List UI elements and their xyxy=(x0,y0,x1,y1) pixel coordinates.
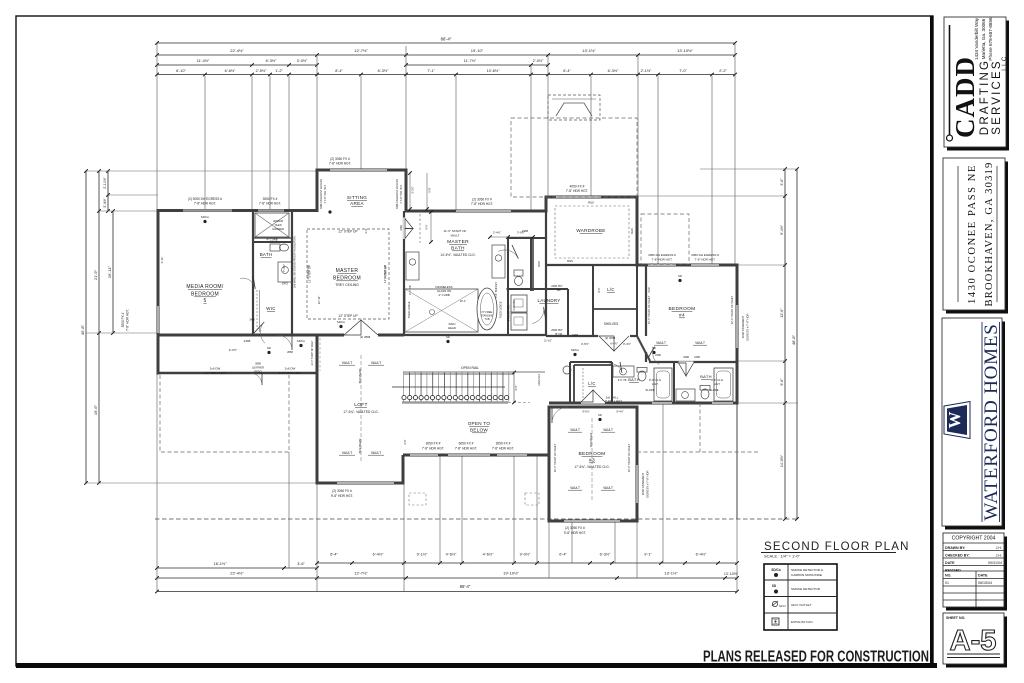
svg-text:2668 PKT: 2668 PKT xyxy=(551,328,563,332)
svg-text:4'-6½": 4'-6½" xyxy=(446,553,457,557)
svg-text:SHELVES: SHELVES xyxy=(604,322,618,326)
svg-text:EGRESS # 7'-8" HDR: EGRESS # 7'-8" HDR xyxy=(646,470,650,497)
interior wall: closet R&S xyxy=(532,238,534,291)
svg-text:1430 OCONEE PASS NE: 1430 OCONEE PASS NE xyxy=(967,164,978,304)
svg-text:7'-8" HDR HGT.: 7'-8" HDR HGT. xyxy=(492,447,514,451)
svg-text:3'-6": 3'-6" xyxy=(297,562,305,566)
svg-text:(2) 3050 FX #: (2) 3050 FX # xyxy=(332,489,352,493)
svg-text:CAB ABV.: CAB ABV. xyxy=(513,299,516,310)
bottom dimension row C (86'-4") xyxy=(157,591,737,593)
fixture: ped sink xyxy=(563,366,571,374)
svg-text:21'-9": 21'-9" xyxy=(93,269,98,280)
dashed bits below window wall xyxy=(409,493,426,505)
exterior wall: loft south xyxy=(316,482,405,485)
sidebar block: copyright table xyxy=(946,537,1007,611)
roof edge line right of bedroom3 xyxy=(736,403,738,519)
staircase treads xyxy=(403,373,405,403)
svg-text:4050 FX #: 4050 FX # xyxy=(570,185,585,189)
svg-text:RGB: RGB xyxy=(648,287,651,293)
svg-text:SD: SD xyxy=(598,413,602,417)
svg-text:3050 FX #: 3050 FX # xyxy=(121,312,125,327)
svg-text:10'-0" START OF VAULT: 10'-0" START OF VAULT xyxy=(627,443,631,472)
interior wall: master east xyxy=(403,211,405,335)
svg-text:SLOPE: SLOPE xyxy=(645,388,654,392)
svg-text:19'-10": 19'-10" xyxy=(471,48,484,53)
svg-text:8'-4": 8'-4" xyxy=(335,69,343,73)
svg-text:3'-4½": 3'-4½" xyxy=(623,342,631,346)
fixture: bath1 toilet xyxy=(638,371,646,381)
svg-text:REVISED: REVISED xyxy=(945,569,961,573)
svg-text:9'-8": 9'-8" xyxy=(428,187,432,192)
svg-text:7'-8" HDR HGT.: 7'-8" HDR HGT. xyxy=(695,258,716,262)
exterior wall: south wall y=335 xyxy=(157,334,405,337)
door: L/C lower doors xyxy=(581,400,605,403)
fixture: bath vanity xyxy=(278,262,292,282)
svg-text:6'-4": 6'-4" xyxy=(559,553,567,557)
left extension lines xyxy=(86,170,317,172)
svg-text:AREA: AREA xyxy=(350,201,364,206)
fixture: bath toilet xyxy=(270,244,280,251)
svg-text:VAULT: VAULT xyxy=(450,234,459,238)
svg-text:SMOKE DETECTOR &: SMOKE DETECTOR & xyxy=(791,568,824,572)
svg-text:9' STEP UP: 9' STEP UP xyxy=(384,265,388,279)
svg-text:16'-1½": 16'-1½" xyxy=(214,562,227,566)
svg-text:VAULT: VAULT xyxy=(342,361,352,365)
svg-text:R&S: R&S xyxy=(588,201,594,205)
svg-text:EGRESS # 7'-8" HDR: EGRESS # 7'-8" HDR xyxy=(746,313,750,340)
svg-text:6'-3½": 6'-3½" xyxy=(608,69,619,73)
interior wall: bath strip L/C lower xyxy=(573,365,575,403)
svg-text:BOX BEAM: BOX BEAM xyxy=(358,438,362,453)
svg-text:(2) 3068: (2) 3068 xyxy=(605,336,616,340)
svg-text:SHEET NO.: SHEET NO. xyxy=(946,616,965,620)
svg-text:9'-0" WALL HGT.: 9'-0" WALL HGT. xyxy=(204,371,227,375)
svg-text:EXHAUST FAN: EXHAUST FAN xyxy=(791,620,812,624)
svg-text:1434 Vanderbilt Way: 1434 Vanderbilt Way xyxy=(974,17,979,60)
svg-text:TUB: TUB xyxy=(485,318,490,321)
svg-text:VAULT: VAULT xyxy=(570,428,580,432)
svg-text:CHECKED BY:: CHECKED BY: xyxy=(945,554,970,558)
svg-text:11'-6" START OF: 11'-6" START OF xyxy=(444,229,467,233)
exterior wall: wardrobe right xyxy=(636,196,639,267)
interior wall: masterbath south / hall north y=335 xyxy=(404,334,546,336)
bottom dimension row A right xyxy=(317,562,737,564)
dashed roof outline center xyxy=(511,118,637,197)
svg-text:TREY CEILING: TREY CEILING xyxy=(335,283,359,287)
legend box xyxy=(764,564,837,630)
svg-text:7'-8" HDR HGT.: 7'-8" HDR HGT. xyxy=(652,258,673,262)
svg-text:2'-2": 2'-2" xyxy=(719,69,727,73)
svg-text:SD/Co: SD/Co xyxy=(337,320,346,324)
exterior wall: wardrobe jog/top xyxy=(545,196,548,213)
interior wall: wardrobe south / bedroom4 row y=265 xyxy=(546,264,637,266)
closet depth dim xyxy=(430,212,432,242)
svg-text:48'-8": 48'-8" xyxy=(791,334,796,345)
svg-text:2x6 DW: 2x6 DW xyxy=(210,367,221,371)
svg-text:9'-1": 9'-1" xyxy=(644,553,652,557)
dashed overhang line bottom xyxy=(155,518,798,520)
svg-text:3'-0½": 3'-0½" xyxy=(297,59,308,63)
fixture: bath2 tub xyxy=(714,368,733,401)
dashed chimney top xyxy=(548,95,600,120)
fixture: bath1 tub xyxy=(654,368,672,401)
waterford W logo xyxy=(944,402,970,439)
svg-text:(2) 3050 DH EGRESS #: (2) 3050 DH EGRESS # xyxy=(188,197,222,201)
svg-text:2868: 2868 xyxy=(287,350,293,354)
svg-text:VAULT: VAULT xyxy=(603,486,613,490)
svg-text:2468: 2468 xyxy=(694,355,700,359)
svg-text:DRAWN BY:: DRAWN BY: xyxy=(945,546,966,550)
svg-text:4'-6½": 4'-6½" xyxy=(483,553,494,557)
door: patio door on wall y=373 xyxy=(261,373,263,385)
svg-text:9' STEP UP: 9' STEP UP xyxy=(306,265,310,279)
svg-text:3468: 3468 xyxy=(572,333,579,337)
svg-text:SD/Co: SD/Co xyxy=(571,348,580,352)
exterior wall: bedroom4 right xyxy=(736,264,739,405)
svg-text:09/31/04: 09/31/04 xyxy=(988,561,1002,565)
svg-text:TILED LEDGE: TILED LEDGE xyxy=(407,301,411,318)
dashed wardrobe rect xyxy=(555,206,629,258)
dimension chain row 3 xyxy=(157,64,317,66)
svg-text:6'-3½": 6'-3½" xyxy=(600,553,611,557)
bottom dimension row B xyxy=(157,577,737,579)
door: laundry xyxy=(544,307,546,321)
interior wall: hall y=336 L/C block xyxy=(546,335,598,337)
exterior wall: media room left xyxy=(157,209,160,375)
fixture: bath1 vanity xyxy=(613,366,634,377)
svg-text:3050 FX #: 3050 FX # xyxy=(426,442,441,446)
door: bath entry xyxy=(253,276,255,289)
svg-text:VAULT: VAULT xyxy=(570,486,580,490)
svg-text:LEATHER: LEATHER xyxy=(252,366,264,370)
svg-text:VAULT: VAULT xyxy=(603,428,613,432)
svg-text:BATH: BATH xyxy=(628,377,640,382)
svg-text:3'-6½": 3'-6½" xyxy=(581,342,589,346)
window: media top xyxy=(183,209,232,212)
window: wardrobe top xyxy=(556,196,601,199)
dashed lc shelf xyxy=(582,368,584,400)
exterior wall: bath strip bottom xyxy=(549,402,739,405)
svg-text:WARDROBE: WARDROBE xyxy=(576,228,605,233)
svg-text:GFCI: GFCI xyxy=(779,604,786,608)
interior wall: bath strip top left piece xyxy=(570,361,612,363)
svg-text:2x6 WALL W/ SOUND PROOF INSULA: 2x6 WALL W/ SOUND PROOF INSULATION xyxy=(293,236,297,288)
interior wall: L/C upper xyxy=(592,265,594,336)
svg-text:SD: SD xyxy=(772,584,777,588)
fixture: master bath right vanity xyxy=(492,245,505,278)
door: WC xyxy=(512,245,518,259)
svg-text:SHOWER: SHOWER xyxy=(272,227,284,231)
svg-text:6'-3½": 6'-3½" xyxy=(266,59,277,63)
stair bottom gray band xyxy=(402,401,508,403)
svg-text:3050 DH EGRESS #: 3050 DH EGRESS # xyxy=(691,253,719,257)
svg-text:13'-10½": 13'-10½" xyxy=(677,48,693,53)
stair railing balusters xyxy=(402,396,406,400)
svg-text:7'-8" HDR HGT.: 7'-8" HDR HGT. xyxy=(329,162,351,166)
svg-text:HEAD: HEAD xyxy=(448,326,456,330)
svg-text:7'-0": 7'-0" xyxy=(679,69,687,73)
svg-text:6'-10": 6'-10" xyxy=(176,69,186,73)
svg-text:22'-4½": 22'-4½" xyxy=(230,571,244,576)
svg-text:OPEN TO: OPEN TO xyxy=(468,421,491,426)
svg-text:PATIO: PATIO xyxy=(254,370,261,374)
svg-text:9'-3½": 9'-3½" xyxy=(229,348,237,352)
interior wall: bath/wic divider xyxy=(253,241,292,243)
svg-text:6'-4": 6'-4" xyxy=(330,553,338,557)
svg-text:PLANS RELEASED FOR CONSTRUCTIO: PLANS RELEASED FOR CONSTRUCTION xyxy=(703,649,929,666)
dimension chain row 4 xyxy=(157,74,735,76)
svg-text:9'-0½": 9'-0½" xyxy=(520,553,531,557)
exterior wall: media room top xyxy=(158,209,317,212)
svg-text:BELOW: BELOW xyxy=(470,428,488,433)
svg-text:Marietta, Ga. 30066: Marietta, Ga. 30066 xyxy=(981,18,986,59)
svg-text:SECOND FLOOR PLAN: SECOND FLOOR PLAN xyxy=(764,541,910,553)
svg-text:WIC: WIC xyxy=(266,306,275,311)
svg-text:6'-4½": 6'-4½" xyxy=(373,553,384,557)
svg-text:VAULT: VAULT xyxy=(342,451,352,455)
svg-text:9'-4½": 9'-4½" xyxy=(780,224,784,235)
svg-text:4'-6": 4'-6" xyxy=(514,385,518,391)
window: bedroom3 south xyxy=(564,520,620,523)
svg-text:10'-0" START OF VAULT: 10'-0" START OF VAULT xyxy=(311,340,314,366)
interior wall: media/bath divider xyxy=(252,211,254,336)
interior wall: bath1/bath2 divider xyxy=(673,362,675,403)
svg-text:13'-1½": 13'-1½" xyxy=(582,48,596,53)
right dimension column xyxy=(784,169,786,519)
window: bath top xyxy=(258,209,284,212)
window: media left wall xyxy=(157,306,160,333)
svg-text:4'-6": 4'-6" xyxy=(403,439,407,444)
svg-text:11'-7½": 11'-7½" xyxy=(464,59,477,63)
fixture: master shower tiled xyxy=(405,289,478,332)
svg-text:01: 01 xyxy=(945,581,949,585)
svg-text:J.H.: J.H. xyxy=(996,546,1002,550)
svg-text:7'-8" HDR HGT.: 7'-8" HDR HGT. xyxy=(566,189,588,193)
exterior wall: loft east below rail xyxy=(402,455,405,485)
svg-text:2'-1½": 2'-1½" xyxy=(641,69,652,73)
exterior wall: master bath top xyxy=(405,210,548,213)
window: master bath top xyxy=(456,210,511,213)
svg-text:14'-0½": 14'-0½" xyxy=(780,454,784,467)
svg-text:CARBON MONOXIDE: CARBON MONOXIDE xyxy=(791,573,822,577)
sidebar block: WATERFORD HOMES xyxy=(945,322,1005,530)
svg-text:13'-6": 13'-6" xyxy=(780,308,784,318)
svg-text:6'-4½": 6'-4½" xyxy=(696,553,707,557)
svg-text:12'-7½": 12'-7½" xyxy=(354,48,368,53)
svg-text:BATH: BATH xyxy=(260,252,273,257)
svg-text:SD: SD xyxy=(678,274,682,278)
svg-text:6'-3½": 6'-3½" xyxy=(378,69,389,73)
dashed tray ceiling master bedroom xyxy=(307,229,389,319)
svg-text:22'-4½": 22'-4½" xyxy=(230,48,244,53)
svg-text:3068 CASEMENT EGRESS: 3068 CASEMENT EGRESS xyxy=(396,179,399,209)
svg-text:12'-0" START OF VAULT: 12'-0" START OF VAULT xyxy=(647,295,651,324)
svg-text:SLOPE: SLOPE xyxy=(709,388,718,392)
window: bedroom3 east xyxy=(636,465,639,503)
svg-text:BOX BEAM: BOX BEAM xyxy=(358,368,362,383)
svg-text:12" STEP UP: 12" STEP UP xyxy=(338,230,357,234)
svg-text:45'-8": 45'-8" xyxy=(80,324,85,335)
door: bedroom3 entry xyxy=(551,407,553,423)
exterior wall: open-below window wall xyxy=(403,454,549,457)
svg-text:14'-4½"- VAULTED CLG.: 14'-4½"- VAULTED CLG. xyxy=(440,253,475,257)
window: bedroom4 east xyxy=(736,305,739,348)
interior wall: WC walls xyxy=(507,238,509,291)
svg-text:3068 CASEMENT EGRESS: 3068 CASEMENT EGRESS xyxy=(320,179,323,209)
svg-text:LLC: LLC xyxy=(1002,55,1008,71)
svg-text:# 7'-8" HDR HGT.: # 7'-8" HDR HGT. xyxy=(400,184,403,203)
svg-text:NO.: NO. xyxy=(945,574,951,578)
svg-text:R&S: R&S xyxy=(567,259,573,263)
svg-text:3068 CASEMENT: 3068 CASEMENT xyxy=(741,315,745,338)
svg-text:7'-1": 7'-1" xyxy=(427,69,435,73)
fixture: laundry units xyxy=(511,295,527,312)
svg-text:2x6 DW: 2x6 DW xyxy=(285,367,296,371)
door: wic entry xyxy=(254,322,264,333)
svg-text:6050 FX #: 6050 FX # xyxy=(459,442,474,446)
svg-text:TILED: TILED xyxy=(274,223,281,227)
svg-text:19'-6": 19'-6" xyxy=(93,404,98,415)
svg-text:SD: SD xyxy=(446,335,450,339)
fixture: master bath left vanity xyxy=(406,252,419,280)
fixture: bath shower with X xyxy=(255,213,289,237)
svg-text:R&S: R&S xyxy=(630,228,634,234)
svg-text:6'-0" VB: 6'-0" VB xyxy=(408,285,412,295)
svg-text:W: W xyxy=(945,412,964,429)
dashed wic shelves xyxy=(256,290,258,332)
svg-text:4'-0": 4'-0" xyxy=(425,224,429,229)
svg-text:9'-6½": 9'-6½" xyxy=(582,410,589,414)
fixture: WC toilet xyxy=(514,270,523,276)
svg-text:9'-8" HDR HGT.: 9'-8" HDR HGT. xyxy=(564,531,586,535)
svg-text:9'-6": 9'-6" xyxy=(780,378,784,386)
svg-text:86'-4": 86'-4" xyxy=(460,584,471,589)
interior wall: bath fixtures wall xyxy=(253,237,292,239)
svg-text:10'-0" START OF VAULT: 10'-0" START OF VAULT xyxy=(553,443,557,472)
exterior wall: bedroom4 top xyxy=(636,264,739,267)
svg-text:2'-5½": 2'-5½" xyxy=(256,69,267,73)
svg-text:DATE: DATE xyxy=(945,561,955,565)
svg-text:9'-1½": 9'-1½" xyxy=(417,553,428,557)
door: master double door xyxy=(344,333,378,336)
svg-text:VAULT: VAULT xyxy=(371,361,381,365)
svg-text:7'-8" HDR HGT.: 7'-8" HDR HGT. xyxy=(455,447,477,451)
svg-text:SCALE : 1/4" = 1'-0": SCALE : 1/4" = 1'-0" xyxy=(764,554,801,559)
svg-text:4'-4": 4'-4" xyxy=(364,228,368,233)
svg-text:7'-8" HDR HGT.: 7'-8" HDR HGT. xyxy=(194,202,216,206)
svg-text:L/C: L/C xyxy=(588,381,595,386)
stair north edge xyxy=(404,373,514,375)
svg-text:16'-11": 16'-11" xyxy=(107,265,112,278)
svg-text:TILED LEDGE: TILED LEDGE xyxy=(499,301,503,318)
svg-text:36/36/36: 36/36/36 xyxy=(273,219,284,223)
sidebar block: CADD DRAFTING SERVICES xyxy=(947,21,1009,151)
svg-text:R&S: R&S xyxy=(537,261,541,267)
dashed roof outline right xyxy=(641,214,689,264)
bottom extension verticals xyxy=(156,373,158,592)
door: bedroom4 entry xyxy=(648,347,655,358)
svg-text:SD: SD xyxy=(267,346,271,350)
exterior wall: bedroom3 block xyxy=(548,406,551,523)
window: loft south xyxy=(337,482,394,485)
svg-text:2468: 2468 xyxy=(400,225,403,231)
svg-text:'B' DR.: 'B' DR. xyxy=(555,332,563,336)
WC dims above xyxy=(490,236,533,238)
svg-text:SD/Co: SD/Co xyxy=(771,568,781,572)
windows: bath strip south xyxy=(652,402,672,405)
SD dot sitting corner xyxy=(328,210,331,213)
svg-text:LAUNDRY: LAUNDRY xyxy=(537,298,560,303)
svg-text:12'-7½": 12'-7½" xyxy=(354,571,368,576)
fixture: bath2 vanity xyxy=(676,389,695,401)
svg-text:WATERFORD HOMES: WATERFORD HOMES xyxy=(981,323,1002,520)
interior wall: bedroom4 west xyxy=(645,265,647,336)
svg-text:(2) 3050 FX #: (2) 3050 FX # xyxy=(472,198,492,202)
svg-text:7'-8" HDR HGT.: 7'-8" HDR HGT. xyxy=(126,309,130,331)
dashed attic rect left xyxy=(160,375,289,452)
dashed attic line right of bedroom3 xyxy=(637,451,760,453)
svg-text:12'-0" START OF VAULT: 12'-0" START OF VAULT xyxy=(730,295,734,324)
svg-text:9'-0" WALL HGT.: 9'-0" WALL HGT. xyxy=(279,371,302,375)
svg-text:DATE: DATE xyxy=(978,574,988,578)
svg-text:1'-2": 1'-2" xyxy=(275,69,283,73)
svg-text:19'-10½": 19'-10½" xyxy=(503,571,519,576)
svg-text:3050 DH EGRESS #: 3050 DH EGRESS # xyxy=(648,253,676,257)
interior wall: bath strip / master divider xyxy=(291,211,293,336)
svg-text:SD/Co: SD/Co xyxy=(201,215,210,219)
door: master east closet double doors xyxy=(403,218,406,240)
svg-text:DRAFTING: DRAFTING xyxy=(979,59,991,135)
svg-text:3'-6": 3'-6" xyxy=(780,178,784,186)
svg-text:16'-11": 16'-11" xyxy=(317,296,321,304)
svg-text:9'-4½": 9'-4½" xyxy=(616,410,623,414)
svg-text:11'-10": 11'-10" xyxy=(544,339,552,343)
svg-text:4" CURB: 4" CURB xyxy=(438,293,449,297)
interior wall: laundry xyxy=(507,289,509,336)
svg-text:BOX BEAM: BOX BEAM xyxy=(589,433,593,447)
svg-text:3'-3½": 3'-3½" xyxy=(411,186,415,193)
svg-text:A/ 4½": A/ 4½" xyxy=(610,342,618,346)
interior wall: diagonal to bath strip xyxy=(637,336,650,361)
svg-text:GFCI OUTLET: GFCI OUTLET xyxy=(791,603,812,607)
svg-text:3050 FX #: 3050 FX # xyxy=(496,442,511,446)
svg-text:7'-8" HDR HGT.: 7'-8" HDR HGT. xyxy=(259,202,281,206)
svg-text:DR.: DR. xyxy=(557,288,562,292)
svg-text:7'-8" HDR HGT.: 7'-8" HDR HGT. xyxy=(471,202,493,206)
svg-text:2'-0½": 2'-0½" xyxy=(533,59,544,63)
svg-text:6'-6½": 6'-6½" xyxy=(225,69,236,73)
svg-text:STACKED W/D: STACKED W/D xyxy=(508,305,511,322)
svg-text:(2) 2868: (2) 2868 xyxy=(360,335,371,339)
svg-text:16'-1": 16'-1" xyxy=(460,299,467,303)
svg-text:2468: 2468 xyxy=(655,353,661,357)
svg-text:6'-0" VB: 6'-0" VB xyxy=(618,379,627,382)
svg-text:(2) 3050 FX #: (2) 3050 FX # xyxy=(565,526,585,530)
fixture: bath2 toilet xyxy=(701,389,709,399)
svg-text:13'-1½": 13'-1½" xyxy=(664,571,678,576)
svg-text:OPEN RAIL: OPEN RAIL xyxy=(461,366,479,370)
svg-text:GFCI: GFCI xyxy=(282,282,288,286)
svg-text:12" STEP UP: 12" STEP UP xyxy=(338,314,357,318)
svg-text:3'-10": 3'-10" xyxy=(160,257,164,264)
door: loft hall double door (2)3068 xyxy=(599,334,629,337)
sidebar block: address xyxy=(946,162,1008,314)
svg-text:8'-0": 8'-0" xyxy=(597,287,601,292)
svg-text:2468: 2468 xyxy=(244,339,251,343)
svg-text:L/C: L/C xyxy=(607,287,614,292)
svg-text:2468: 2468 xyxy=(522,229,529,233)
door: bath2 entry xyxy=(679,361,694,364)
